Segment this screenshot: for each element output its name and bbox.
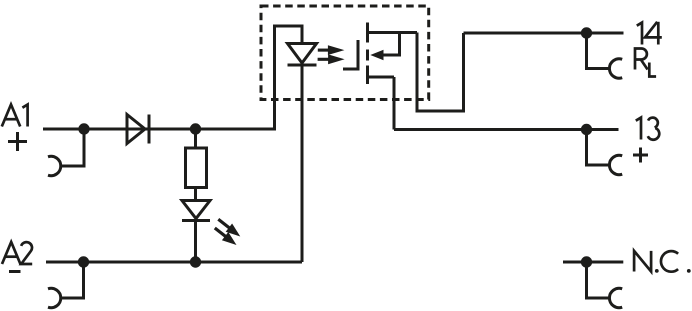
junction dot terminal 14 — [581, 27, 592, 38]
MOSFET Q1 source lead — [368, 76, 395, 79]
terminal label 14 — [637, 22, 662, 45]
clamp contact N.C. — [609, 288, 622, 307]
terminal label 13 — [636, 118, 659, 140]
wire node 13 to clamp — [587, 130, 610, 166]
wire node to resistor — [194, 129, 197, 148]
wire LED to A2 line — [194, 221, 197, 263]
wire clamp A1 to node — [61, 129, 84, 166]
resistor R1 — [186, 148, 207, 188]
junction dot A1 node — [78, 123, 89, 134]
optocoupler U1 dashed enclosure — [261, 6, 429, 100]
wire source drop to terminal 13 — [393, 77, 396, 130]
minus sign at A2 — [9, 270, 21, 273]
diode D1 (reverse polarity protection) — [127, 115, 149, 144]
wire A1 to optocoupler LED anode — [275, 26, 303, 131]
wire node N.C. to clamp — [587, 262, 610, 298]
junction dot resistor branch — [190, 123, 201, 134]
MOSFET Q1 channel top segment (drain) — [366, 23, 369, 43]
LED D2 light emission arrows — [215, 219, 241, 245]
wire optocoupler LED cathode to A2 line — [301, 65, 304, 262]
clamp contact A1 — [48, 156, 61, 175]
wire terminal 14 — [464, 32, 624, 35]
wire node 14 to clamp — [587, 33, 610, 69]
terminal label N.C. — [634, 251, 691, 273]
wire A2 horizontal — [46, 261, 302, 264]
plus sign at 13 — [633, 148, 648, 163]
clamp contact A2 — [48, 288, 61, 307]
load label RL — [635, 49, 656, 77]
wire terminal N.C. stub — [563, 261, 623, 264]
LED D2 status indicator — [182, 201, 210, 221]
clamp contact 13 — [609, 155, 622, 174]
junction dot terminal 13 — [581, 124, 592, 135]
junction dot LED branch on A2 line — [190, 256, 201, 267]
MOSFET Q1 gate electrode — [343, 40, 358, 69]
wire clamp A2 to node — [61, 262, 84, 298]
terminal label A2 — [2, 242, 32, 264]
MOSFET Q1 body arrow and tie to drain — [370, 33, 399, 61]
terminal label A1 — [2, 105, 28, 127]
optocoupler light coupling arrows — [318, 45, 345, 64]
MOSFET Q1 drain lead — [368, 31, 418, 34]
wire drain detour to terminal 14 — [417, 33, 464, 112]
wire terminal 13 — [394, 128, 619, 131]
plus sign at A1 — [8, 132, 27, 151]
clamp contact 14 — [609, 59, 622, 78]
MOSFET Q1 channel bottom segment (source) — [366, 66, 369, 85]
junction dot A2 node — [78, 256, 89, 267]
optocoupler LED D3 — [288, 44, 317, 66]
MOSFET Q1 channel middle segment (body) — [366, 50, 369, 61]
wire A1 horizontal — [43, 128, 275, 131]
wire resistor to LED — [194, 188, 197, 201]
junction dot terminal N.C. — [581, 256, 592, 267]
